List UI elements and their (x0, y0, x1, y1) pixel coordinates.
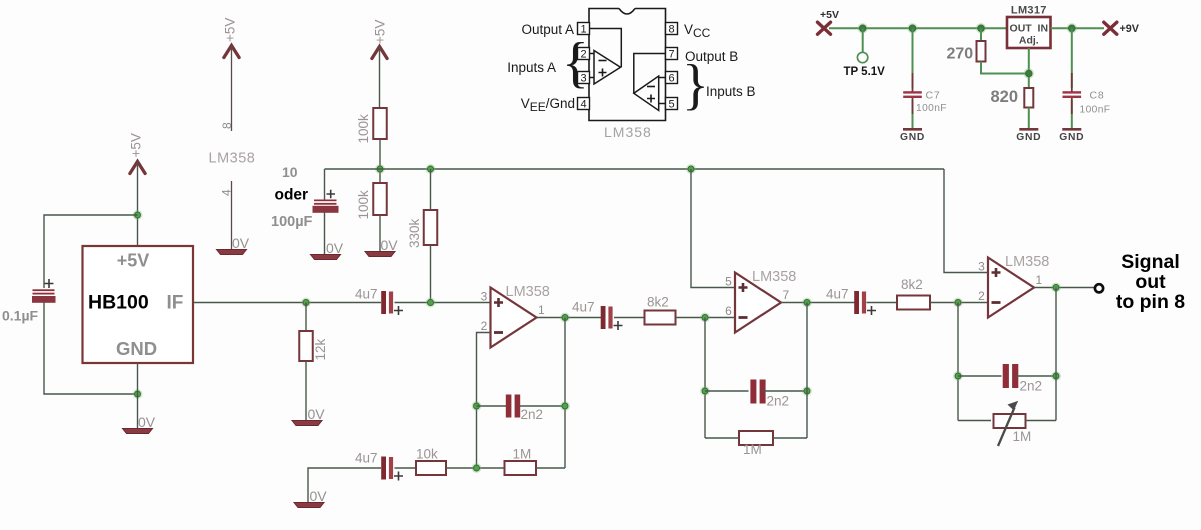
wire LM358 vcc pin8 (231, 46, 233, 131)
wire 100k lower to gnd (379, 215, 381, 251)
svg-text:{: { (562, 32, 589, 94)
junction fb2 in (700, 313, 710, 323)
svg-text:+5V: +5V (373, 20, 388, 44)
svg-text:2n2: 2n2 (767, 394, 790, 409)
svg-text:Inputs A: Inputs A (507, 60, 556, 75)
junction HB100 supply (133, 210, 143, 220)
label Signal out to pin 8 (1116, 251, 1185, 313)
label TP 5.1V (844, 66, 886, 78)
label VCC (684, 22, 711, 40)
wire opamp2 out (781, 302, 855, 304)
wire TP stub (862, 28, 864, 52)
wire pin1 to op-amp A output (590, 29, 622, 68)
svg-text:5: 5 (668, 99, 674, 111)
pin X connector +9V (1104, 22, 1117, 34)
supply +5V arrow HB100 (130, 162, 145, 174)
label HB100 GND pin (116, 338, 157, 359)
label +5V rotated LM358 power (223, 18, 238, 42)
svg-text:3: 3 (481, 290, 488, 304)
capacitor 0.1uF (32, 279, 56, 303)
wire 12k top (305, 303, 307, 332)
capacitor C8 (1063, 91, 1082, 98)
wire 2n2-3 right (1015, 375, 1056, 377)
resistor 10k (416, 461, 446, 475)
svg-text:LM358: LM358 (209, 151, 256, 167)
junction 2n2-2 left (700, 386, 710, 396)
wire bus to opamp2 plus (691, 169, 735, 288)
capacitor 2n2 stage1 (506, 395, 520, 418)
svg-text:0V: 0V (326, 240, 344, 256)
svg-text:2n2: 2n2 (521, 407, 544, 422)
pin 4 label (220, 189, 234, 196)
capacitor C3 4u7 (601, 306, 623, 330)
svg-text:7: 7 (668, 49, 674, 61)
resistor 270 (977, 41, 986, 62)
svg-text:2: 2 (481, 319, 488, 333)
resistor 8k2 stage3 (897, 296, 930, 310)
svg-text:LM358: LM358 (506, 284, 550, 300)
junction 2n2-3 right (1051, 371, 1061, 381)
svg-text:5: 5 (725, 275, 732, 289)
junction bus 330k (426, 164, 436, 174)
svg-text:4u7: 4u7 (355, 451, 378, 466)
svg-text:4: 4 (580, 99, 586, 111)
label OUT IN (1010, 23, 1049, 35)
label 8k2 stage3 (901, 277, 923, 292)
svg-text:LM358: LM358 (752, 269, 796, 285)
resistor 1M stage2 (739, 431, 773, 445)
svg-text:10k: 10k (416, 447, 438, 462)
svg-text:Signal: Signal (1121, 251, 1180, 273)
capacitor C5 4u7 (854, 291, 876, 315)
junction divider mid (375, 164, 385, 174)
wire C2 to 10k (395, 467, 417, 469)
svg-text:100k: 100k (356, 114, 371, 144)
junction out2 (802, 298, 812, 308)
wire 270 branch (980, 28, 982, 41)
ground 0V bottom (294, 488, 327, 508)
label 2n2 stage1 (521, 407, 544, 422)
IC LM317 box (1007, 17, 1051, 48)
wire to 0.1uF top (44, 215, 138, 288)
wire +5V rail to LM317 OUT (829, 27, 1007, 29)
ground 0V LM358 (217, 235, 250, 255)
label Inputs A (507, 60, 556, 75)
label C7 (926, 90, 941, 102)
junction out3 (1051, 283, 1061, 293)
svg-text:+5V: +5V (117, 251, 150, 271)
wire 270 to Adj node (981, 62, 1029, 74)
wire 2n2-3 left (958, 375, 1002, 377)
brace Inputs A (562, 32, 589, 94)
node +9V supply label (1120, 23, 1140, 35)
module HB100 box (83, 246, 194, 363)
pin X connector +5V (818, 22, 831, 34)
wire 8k2 to opamp2 (676, 317, 736, 319)
wire C3 to 8k2 (614, 317, 645, 319)
svg-text:GND: GND (1059, 132, 1084, 143)
label 4u7 C2 (355, 451, 378, 466)
junction 12k (301, 298, 311, 308)
label 10k (416, 447, 438, 462)
pin signal out connector (1095, 284, 1103, 292)
label 12k (313, 338, 328, 360)
pin 8 box (666, 23, 678, 36)
label Adj (1019, 35, 1039, 47)
svg-text:0V: 0V (138, 414, 156, 430)
label +5V rotated divider (373, 20, 388, 44)
wire 100k junction (379, 139, 381, 183)
pin 6 box (666, 72, 678, 85)
wire 100uF to gnd (324, 212, 326, 256)
junction fb3 in (953, 298, 963, 308)
resistor 820 (1024, 88, 1033, 108)
wire 1M2 row (705, 437, 739, 439)
svg-text:12k: 12k (313, 338, 328, 360)
svg-text:0V: 0V (381, 237, 399, 253)
label C8 (1090, 90, 1105, 102)
junction HB100 gnd (133, 389, 143, 399)
svg-text:TP 5.1V: TP 5.1V (844, 66, 886, 78)
wire 1M to out1 (536, 467, 565, 469)
pin 7 box (666, 48, 678, 61)
wire C7 pin stubs (912, 73, 914, 114)
wire 0.1uF to GND net (44, 302, 138, 394)
wire trimmer row (958, 420, 991, 422)
wire 8k2 to opamp3 (930, 302, 988, 304)
label 1M stage1 (513, 447, 532, 462)
wire pin7 to op-amp B output (634, 54, 666, 94)
junction C7 (907, 23, 917, 33)
label LM358 DIP (604, 124, 652, 140)
junction bias stage1 (426, 298, 436, 308)
svg-text:2n2: 2n2 (1020, 379, 1043, 394)
resistor 330k wire top (430, 169, 432, 210)
svg-text:1M: 1M (743, 442, 762, 457)
wire +5V to HB100 (137, 162, 139, 246)
label 4u7 C1 (355, 287, 378, 302)
label LM358 power (209, 151, 256, 167)
pin 2 box (578, 48, 590, 61)
label HB100 +5V pin (117, 251, 150, 271)
label 2n2 stage2 (767, 394, 790, 409)
svg-text:330k: 330k (407, 218, 422, 248)
wire 2n2-2 right (762, 390, 807, 392)
label 4u7 C3 (572, 300, 595, 315)
resistor 330k (424, 210, 438, 245)
supply +5V arrow divider (372, 47, 387, 59)
wire pin6 stub (659, 77, 666, 79)
svg-text:4u7: 4u7 (826, 287, 849, 302)
junction bus stage2 (686, 164, 696, 174)
wire pin3 stub (590, 77, 595, 79)
ground GND C7 (900, 129, 925, 143)
op-amp U1B (725, 269, 796, 333)
pin 4 box (578, 98, 590, 111)
wire opamp3 out (1034, 287, 1095, 289)
svg-text:10: 10 (282, 164, 298, 180)
label 0.1uF (2, 308, 39, 324)
svg-text:0V: 0V (232, 235, 250, 251)
wire Adj pin down (1028, 48, 1030, 88)
node +5V supply label (820, 9, 839, 21)
wire bus to 100uF (324, 169, 326, 200)
junction 2n2-1 right (560, 401, 570, 411)
svg-text:GND: GND (1016, 132, 1041, 143)
svg-text:6: 6 (725, 304, 732, 318)
svg-text:1M: 1M (513, 447, 532, 462)
svg-text:HB100: HB100 (88, 292, 149, 314)
brace Inputs B (682, 54, 709, 116)
svg-text:to pin 8: to pin 8 (1116, 291, 1185, 313)
pin 5 box (666, 98, 678, 111)
label 1M stage2 (743, 442, 762, 457)
wire C8 pin stubs (1071, 73, 1073, 114)
wire 330k to signal (430, 245, 432, 303)
label +5V rotated HB100 (129, 133, 144, 157)
svg-text:0V: 0V (310, 488, 328, 504)
resistor 100k upper (373, 108, 387, 139)
svg-text:820: 820 (991, 88, 1019, 106)
capacitor C2 4u7 (381, 457, 403, 481)
resistor 100k lower (373, 183, 387, 215)
svg-text:0V: 0V (308, 406, 326, 422)
wire C5 to 8k2 (867, 302, 898, 304)
ground 0V 12k (292, 406, 325, 426)
svg-text:oder: oder (275, 187, 309, 204)
svg-text:100nF: 100nF (1080, 105, 1111, 116)
trimmer 1M (994, 401, 1026, 446)
wire pin2 feedback (477, 333, 491, 469)
svg-text:1: 1 (1036, 273, 1043, 287)
svg-text:+5V: +5V (129, 133, 144, 157)
capacitor 100uF (313, 190, 339, 213)
wire trimmer to out3 (1025, 420, 1056, 422)
op-amp B triangle (634, 76, 659, 111)
resistor 1M stage1 (505, 461, 537, 475)
wire bias bus (325, 168, 945, 170)
svg-text:8k2: 8k2 (901, 277, 923, 292)
capacitor C1 4u7 (381, 291, 403, 315)
test point TP 5.1V circle (857, 52, 867, 62)
svg-text:2: 2 (978, 289, 985, 303)
wire 12k to gnd (305, 361, 307, 420)
label 10 (282, 164, 298, 180)
junction 2n2-2 right (802, 386, 812, 396)
label C8 100nF (1080, 105, 1111, 116)
ground GND 820 (1016, 129, 1041, 143)
svg-text:1M: 1M (1013, 429, 1032, 444)
resistor 8k2 stage2 (645, 311, 676, 325)
svg-text:out: out (1135, 271, 1166, 293)
pin 1 box (578, 23, 590, 36)
wire bottom from gnd (308, 468, 381, 502)
svg-text:IF: IF (167, 293, 184, 314)
op-amp U2A (978, 254, 1049, 318)
resistor 12k (299, 331, 313, 361)
wire fb2 down (704, 318, 706, 439)
wire 2n2-2 left (705, 390, 749, 392)
junction C8 (1067, 23, 1077, 33)
label oder (275, 187, 309, 204)
junction TP (858, 23, 868, 33)
svg-text:}: } (682, 54, 709, 116)
label 820 (991, 88, 1019, 106)
svg-text:3: 3 (978, 260, 985, 274)
svg-text:+9V: +9V (1120, 23, 1140, 35)
wire 1M2 to out2 (773, 437, 807, 439)
pin 8 label (220, 122, 234, 129)
wire LM317 IN to +9V (1051, 27, 1105, 29)
svg-text:C7: C7 (926, 90, 941, 102)
wire IF signal (193, 302, 381, 304)
junction 2n2-1 left (472, 401, 482, 411)
junction 2n2-3 left (953, 371, 963, 381)
label IF pin (167, 293, 184, 314)
label 270 (947, 46, 974, 63)
label C7 100nF (916, 103, 947, 114)
wire arrow to R 100k upper (379, 47, 381, 109)
svg-text:100nF: 100nF (916, 103, 947, 114)
junction Adj-820 (1024, 68, 1034, 78)
svg-text:Adj.: Adj. (1019, 35, 1039, 47)
wire pin5 stub (659, 103, 666, 105)
capacitor C7 (903, 91, 922, 98)
wire 2n2-1 right (520, 405, 566, 407)
pin 3 box (578, 72, 590, 85)
label Inputs B (706, 84, 756, 99)
label Output B (685, 49, 738, 64)
wire LM358 gnd pin4 (231, 181, 233, 249)
junction fb1 (472, 463, 482, 473)
ground 0V divider (365, 237, 398, 257)
wire C1 to opamp1 (395, 302, 491, 304)
label Output A (521, 22, 574, 37)
junction out1 (560, 313, 570, 323)
svg-text:0.1µF: 0.1µF (2, 308, 39, 324)
label 330k (407, 218, 422, 248)
svg-text:270: 270 (947, 46, 974, 63)
wire HB100 gnd pin (137, 363, 139, 428)
wire 820 to GND (1028, 108, 1030, 129)
svg-text:8: 8 (668, 24, 674, 36)
svg-text:8k2: 8k2 (647, 295, 669, 310)
label 100uF (271, 214, 313, 230)
ground GND C8 (1059, 129, 1084, 143)
wire C8 branch (1071, 28, 1073, 128)
svg-text:GND: GND (116, 338, 157, 359)
svg-text:100µF: 100µF (271, 214, 313, 230)
wire pin2 stub (590, 53, 595, 55)
op-amp U1A (481, 284, 550, 348)
svg-text:8: 8 (220, 122, 234, 129)
IC LM358 DIP body (589, 9, 666, 121)
svg-text:4u7: 4u7 (355, 287, 378, 302)
label 8k2 stage2 (647, 295, 669, 310)
op-amp A triangle (594, 51, 621, 85)
wire out2 down (806, 303, 808, 439)
svg-text:LM358: LM358 (1005, 254, 1049, 270)
svg-text:+5V: +5V (820, 9, 839, 21)
capacitor 2n2 stage2 (750, 380, 765, 404)
svg-text:6: 6 (668, 73, 674, 85)
svg-text:7: 7 (783, 288, 790, 302)
wire bus to opamp3 plus (944, 169, 988, 273)
svg-text:1: 1 (538, 303, 545, 317)
svg-text:OUT IN: OUT IN (1010, 23, 1049, 35)
svg-text:+5V: +5V (223, 18, 238, 42)
svg-text:C8: C8 (1090, 90, 1105, 102)
label HB100 (88, 292, 149, 314)
wire out3 down (1055, 288, 1057, 421)
wire opamp1 out (537, 317, 602, 319)
svg-text:GND: GND (900, 132, 925, 143)
supply +5V arrow LM358 power (224, 46, 239, 58)
svg-text:LM317: LM317 (1011, 5, 1047, 17)
ground 0V HB100 (123, 414, 156, 434)
label 4u7 C5 (826, 287, 849, 302)
capacitor 2n2 stage3 (1003, 364, 1019, 388)
wire fb3 down (957, 303, 959, 421)
svg-text:Inputs B: Inputs B (706, 84, 756, 99)
wire 2n2-1 left (477, 405, 507, 407)
wire out1 down (564, 318, 566, 469)
label 1M trimmer (1013, 429, 1032, 444)
wire C7 branch (912, 28, 914, 128)
svg-text:LM358: LM358 (604, 124, 652, 140)
svg-text:4u7: 4u7 (572, 300, 595, 315)
label LM317 (1011, 5, 1047, 17)
label 100k upper (356, 114, 371, 144)
label 100k lower (356, 190, 371, 220)
label 2n2 stage3 (1020, 379, 1043, 394)
label VEE/Gnd (521, 96, 575, 114)
junction R 270 (976, 23, 986, 33)
wire 10k to 1M (446, 467, 505, 469)
svg-text:100k: 100k (356, 190, 371, 220)
ground 0V 100uF (311, 240, 344, 260)
